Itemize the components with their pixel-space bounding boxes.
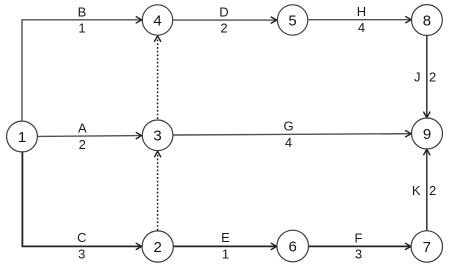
node 1 xyxy=(7,121,38,152)
label H value 4 xyxy=(357,4,366,35)
svg-text:E: E xyxy=(221,230,230,245)
svg-text:2: 2 xyxy=(220,21,227,36)
node 7 xyxy=(411,231,442,262)
label J value 2 xyxy=(414,69,436,84)
node 8 xyxy=(412,5,443,36)
label G value 4 xyxy=(283,119,293,150)
wire D from node 4 to node 5 xyxy=(173,19,276,21)
node 5 xyxy=(277,5,307,35)
svg-text:7: 7 xyxy=(423,239,431,256)
svg-text:1: 1 xyxy=(78,20,85,35)
label D value 2 xyxy=(219,4,228,35)
svg-text:9: 9 xyxy=(423,126,431,143)
svg-text:G: G xyxy=(283,119,293,134)
svg-text:B: B xyxy=(78,4,87,19)
svg-text:4: 4 xyxy=(153,12,161,29)
svg-text:1: 1 xyxy=(18,129,26,146)
svg-text:4: 4 xyxy=(358,20,365,35)
label C value 3 xyxy=(77,230,86,261)
svg-text:2: 2 xyxy=(429,183,436,198)
wire F from node 6 to node 7 xyxy=(309,245,411,247)
wire B path from node 1 up and right to node 4 xyxy=(22,20,141,121)
svg-text:2: 2 xyxy=(154,239,162,256)
svg-text:3: 3 xyxy=(153,128,161,145)
svg-text:2: 2 xyxy=(429,69,436,84)
svg-text:F: F xyxy=(355,230,363,245)
label K value 2 xyxy=(412,183,436,198)
dummy dashed arrow from node 3 up to node 4 xyxy=(157,36,159,119)
label F value 3 xyxy=(355,230,363,261)
wire H from node 5 to node 8 xyxy=(308,19,411,21)
label E value 1 xyxy=(221,230,230,261)
svg-text:3: 3 xyxy=(355,247,362,262)
svg-text:6: 6 xyxy=(289,238,297,255)
svg-text:C: C xyxy=(77,230,86,245)
node 4 xyxy=(142,5,172,35)
dummy dashed arrow from node 2 up to node 3 xyxy=(157,152,159,231)
svg-text:A: A xyxy=(78,121,87,136)
svg-text:2: 2 xyxy=(79,137,86,152)
svg-text:4: 4 xyxy=(285,135,292,150)
node 2 xyxy=(142,231,173,262)
wire J from node 8 down to node 9 xyxy=(426,36,428,118)
svg-text:D: D xyxy=(219,4,228,19)
wire C path from node 1 down and right to node 2 xyxy=(22,152,141,246)
node 9 xyxy=(412,118,443,149)
svg-text:H: H xyxy=(357,4,366,19)
node 6 xyxy=(277,230,309,262)
svg-text:1: 1 xyxy=(222,246,229,261)
label B value 1 xyxy=(78,4,87,35)
node 3 xyxy=(142,120,173,151)
svg-text:3: 3 xyxy=(78,246,85,261)
wire K from node 7 up to node 9 xyxy=(426,150,428,231)
svg-text:8: 8 xyxy=(423,12,431,29)
label A value 2 xyxy=(78,121,87,152)
wire A from node 1 to node 3 xyxy=(38,135,142,138)
wire E from node 2 to node 6 xyxy=(174,245,277,247)
svg-text:K: K xyxy=(412,183,421,198)
svg-text:J: J xyxy=(414,69,421,84)
svg-text:5: 5 xyxy=(288,12,296,29)
wire G from node 3 to node 9 xyxy=(173,134,410,135)
